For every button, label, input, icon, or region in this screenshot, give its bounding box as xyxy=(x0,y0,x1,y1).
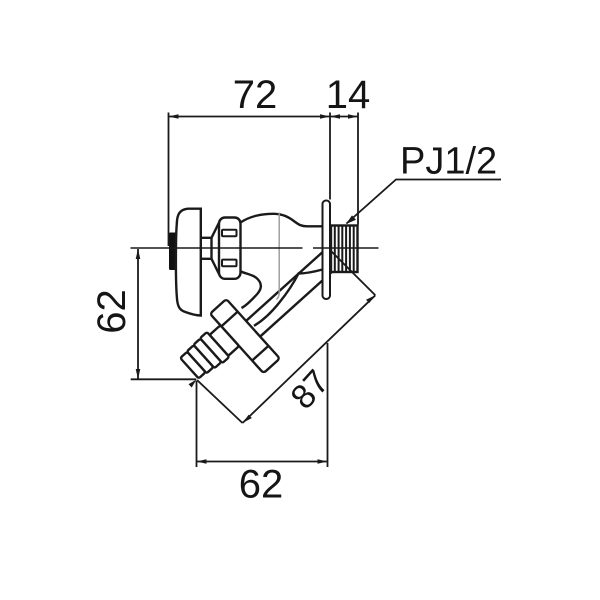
hose barb rib 4 (tip) xyxy=(180,352,205,379)
bottom dimension 62 xyxy=(196,381,198,467)
svg-text:PJ1/2: PJ1/2 xyxy=(400,141,497,183)
extension line bottom of left 62 xyxy=(131,378,197,380)
svg-text:62: 62 xyxy=(90,289,134,334)
body underside hook xyxy=(240,271,261,308)
arrow 14 right xyxy=(348,114,358,119)
arrow 14 left xyxy=(330,114,340,119)
wire tube lower edge xyxy=(260,272,332,337)
hose barb rib 1 xyxy=(200,332,229,363)
centerline (valve axis) xyxy=(131,247,303,249)
extension at tip end xyxy=(197,380,243,423)
taper cone bottom xyxy=(212,259,220,274)
body top outline xyxy=(241,214,323,227)
handle screw (black) xyxy=(169,233,178,271)
hex coupling nut on spout xyxy=(210,299,280,373)
threaded inlet PJ1/2 xyxy=(331,226,358,273)
hose barb rib 2 xyxy=(193,339,221,369)
bottom dim line xyxy=(197,461,328,463)
taper cone top xyxy=(212,223,220,238)
dimension 14: extension line right xyxy=(357,113,359,225)
extension right of bottom 62 xyxy=(327,343,329,467)
leader line PJ1/2 xyxy=(347,180,502,224)
arrow 87 upper xyxy=(366,295,375,303)
left dimension 62: dim line xyxy=(137,249,139,379)
arrow 72 left xyxy=(169,114,179,119)
diagonal dim line xyxy=(243,295,376,423)
body contour line xyxy=(277,213,280,300)
nut facet line 2 xyxy=(252,346,268,361)
arrow bottom62 right xyxy=(318,459,328,464)
sleeve xyxy=(210,325,240,356)
top dimension line xyxy=(169,116,359,118)
diagonal dimension 87: extension at wall end xyxy=(331,251,375,295)
bonnet nut lower facet xyxy=(222,260,237,267)
bonnet nut upper facet xyxy=(222,230,237,236)
stem between handle and bonnet nut xyxy=(201,238,212,259)
dimension 72: extension line left xyxy=(168,113,170,247)
arrow left62 bottom xyxy=(136,369,141,379)
arrow left62 top xyxy=(136,249,141,259)
handle (side view) xyxy=(176,209,201,316)
svg-text:14: 14 xyxy=(326,73,371,117)
leader arrowhead xyxy=(346,215,356,224)
spout group (rotated 42deg down-left) xyxy=(172,224,363,407)
nut facet line 1 xyxy=(221,312,237,327)
small arrow at spout tip corner xyxy=(189,380,197,388)
arrow 87 lower xyxy=(243,415,252,423)
arrow 72 right xyxy=(320,114,330,119)
dimension extension line at wall face xyxy=(329,113,331,200)
svg-text:72: 72 xyxy=(233,73,278,117)
bonnet nut xyxy=(219,218,241,279)
wire tube upper edge xyxy=(246,246,329,321)
svg-text:62: 62 xyxy=(239,463,284,507)
arrow bottom62 left xyxy=(197,459,207,464)
wall flange xyxy=(323,201,331,300)
centerline right segment xyxy=(313,247,379,249)
hose barb rib 3 xyxy=(187,345,214,373)
body underside to flange + spout flare xyxy=(254,270,323,326)
